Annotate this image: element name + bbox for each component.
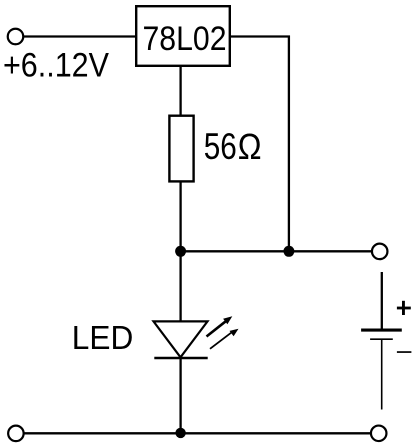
- svg-text:LED: LED: [72, 319, 134, 356]
- svg-text:Ω: Ω: [238, 126, 262, 167]
- svg-text:78L02: 78L02: [143, 20, 227, 58]
- svg-text:+6..12V: +6..12V: [3, 46, 109, 84]
- svg-text:56: 56: [204, 126, 237, 167]
